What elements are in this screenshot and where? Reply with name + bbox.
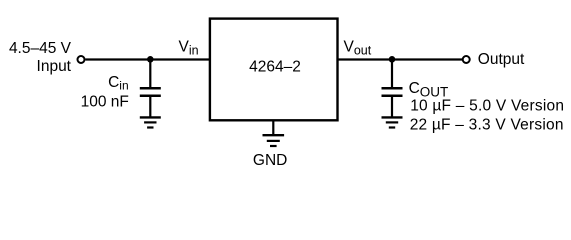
input source label bbox=[9, 40, 72, 75]
Cout label: Cout 10 uF / 22 uF bbox=[409, 80, 565, 134]
node: Vout junction bbox=[389, 56, 396, 63]
svg-text:GND: GND bbox=[253, 152, 287, 169]
capacitor Cout plates bbox=[382, 88, 403, 96]
svg-text:Input: Input bbox=[37, 58, 72, 75]
svg-text:100 nF: 100 nF bbox=[81, 94, 129, 111]
ground below Cout bbox=[382, 117, 403, 127]
capacitor Cin plates bbox=[140, 88, 161, 96]
svg-text:4.5–45 V: 4.5–45 V bbox=[9, 40, 72, 57]
ground GND below IC bbox=[263, 135, 285, 146]
svg-text:Output: Output bbox=[478, 51, 525, 68]
output terminal bbox=[463, 56, 470, 63]
ground below Cin bbox=[140, 117, 161, 127]
wire: input to IC bbox=[86, 58, 211, 60]
wire: IC to GND bbox=[272, 121, 274, 136]
svg-text:22 µF – 3.3 V Version: 22 µF – 3.3 V Version bbox=[410, 117, 564, 134]
svg-text:4264–2: 4264–2 bbox=[249, 59, 301, 76]
Cin label: Cin 100 nF bbox=[81, 74, 129, 111]
wire: IC to output bbox=[337, 58, 462, 60]
wire: Vout node down to Cout bbox=[391, 60, 393, 88]
node: Vin junction bbox=[147, 56, 154, 63]
wire: Cout to ground bbox=[391, 97, 393, 117]
IC U1 regulator box bbox=[210, 19, 338, 121]
wire: Cin to ground bbox=[149, 97, 151, 117]
wire: Vin node down to Cin bbox=[149, 60, 151, 88]
svg-text:10 µF – 5.0 V Version: 10 µF – 5.0 V Version bbox=[410, 97, 564, 114]
input terminal bbox=[78, 56, 85, 63]
